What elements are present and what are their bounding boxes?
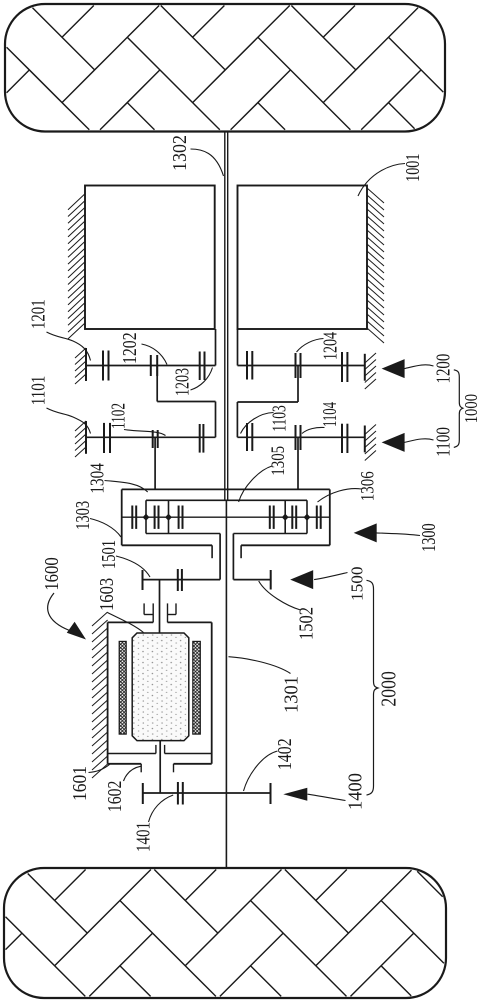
brake element row2-right — [341, 424, 343, 453]
gear P2 left cluster — [154, 506, 156, 529]
gearbox center axis line — [122, 516, 330, 518]
svg-text:2000: 2000 — [377, 671, 401, 706]
motor housing top edge — [108, 621, 154, 623]
wall support 1201 — [85, 348, 87, 381]
wire carrier-right down to 1502 — [232, 534, 234, 580]
carrier frame 1304/1305 (inner box) — [146, 499, 307, 501]
brace 1000 group — [454, 370, 463, 448]
clutch 1104 — [295, 425, 297, 450]
leader 1203 — [191, 368, 213, 391]
gear P3 left cluster — [178, 506, 180, 529]
wire motor output shaft — [159, 741, 161, 793]
fixed-wall hatching 1601 (left of motor) — [92, 612, 108, 626]
wire 1104 down to gearbox — [297, 437, 299, 489]
shaft 1301 (lower main shaft) — [225, 500, 227, 868]
arrow indicator 1300 — [354, 523, 377, 542]
fixed-wall hatching right of box 1001 — [367, 188, 384, 203]
leader 1204 — [297, 339, 324, 353]
leader 1301 — [229, 657, 291, 674]
motor inner bottom lips — [155, 745, 157, 754]
leader 1501 — [116, 556, 150, 577]
wire motor input shaft — [159, 580, 161, 633]
svg-text:1200: 1200 — [432, 354, 454, 384]
junction node A2 — [165, 514, 172, 521]
svg-text:1305: 1305 — [268, 446, 289, 476]
junction node A4 — [304, 514, 311, 521]
fixed-wall hatching left of box M1 — [68, 194, 85, 210]
svg-text:1303: 1303 — [72, 501, 94, 530]
gear G22 on row2-left — [199, 424, 201, 453]
rotor 1603 — [132, 633, 189, 741]
gearbox housing 1303 (outer box) — [122, 488, 330, 490]
svg-text:1400: 1400 — [346, 773, 367, 810]
motor inner bottom edge — [108, 753, 156, 755]
wire row2-right shaft line — [237, 436, 364, 438]
wheel W2 (bottom tire) — [4, 868, 446, 998]
gear P4 right cluster — [269, 506, 271, 529]
svg-text:1203: 1203 — [173, 368, 194, 396]
leader 1102 — [124, 430, 166, 436]
wire 1501 row line — [143, 579, 221, 581]
wire row1-right shaft line — [238, 365, 365, 367]
svg-text:1100: 1100 — [432, 427, 454, 457]
svg-text:1000: 1000 — [461, 394, 481, 424]
svg-text:1602: 1602 — [104, 781, 126, 812]
gear P5 right cluster — [291, 506, 293, 529]
svg-text:1402: 1402 — [274, 738, 296, 770]
wire 1502 row line — [233, 579, 270, 581]
tread pattern of wheel W2 — [6, 870, 444, 997]
gear P1 left cluster — [131, 506, 133, 529]
svg-text:1201: 1201 — [29, 299, 50, 329]
leader 1401 — [149, 795, 174, 822]
leader 1104 — [302, 427, 325, 433]
svg-text:1302: 1302 — [170, 135, 191, 171]
arrow indicator 1200 — [382, 359, 405, 378]
svg-text:1104: 1104 — [320, 402, 341, 427]
wire row2-left shaft line — [86, 436, 216, 438]
wire step 1204 to row2-right — [297, 366, 299, 403]
stator 1602 left block — [119, 641, 126, 734]
junction node A3 — [282, 514, 289, 521]
gearbox bottom lips — [211, 545, 213, 558]
shaft end T 1502-right — [270, 570, 272, 590]
svg-text:1500: 1500 — [347, 567, 366, 602]
leader 1201 — [47, 332, 91, 361]
motor outer bottom edge — [108, 763, 142, 765]
svg-text:1601: 1601 — [69, 766, 91, 801]
svg-text:1306: 1306 — [358, 471, 379, 501]
leader 1402 — [244, 751, 278, 791]
leader 1305 — [239, 466, 272, 502]
leader 1603 — [108, 613, 144, 633]
wire step 1202 to row2-left — [156, 366, 158, 402]
wire 1402 row line — [143, 792, 271, 794]
svg-text:1501: 1501 — [98, 540, 120, 569]
leader 1304 — [105, 481, 148, 493]
leader 1202 — [142, 344, 168, 365]
wire from box 1001 down to row1-right — [237, 329, 239, 366]
leader 1306 — [318, 489, 362, 502]
leader 1101 — [47, 408, 91, 434]
svg-text:1202: 1202 — [120, 332, 141, 364]
shaft end T 1501-left — [142, 570, 144, 590]
coupling 1402 — [177, 782, 179, 805]
wheel W1 (top tire) — [5, 4, 445, 132]
leader 1601 — [89, 764, 110, 772]
brace 2000 group — [367, 580, 378, 795]
box M1 (left unit) — [85, 186, 215, 330]
stator 1602 right block — [193, 641, 201, 734]
tread pattern of wheel W1 — [7, 6, 444, 130]
clutch 1102 — [152, 430, 154, 448]
wire from box M1 down to row1-left — [215, 329, 217, 366]
brake element row1-right — [341, 352, 343, 382]
svg-text:1103: 1103 — [270, 405, 291, 432]
wire row1-left shaft line — [86, 365, 216, 367]
motor outer bottom lips — [140, 764, 142, 773]
arrow indicator 1100 — [382, 433, 405, 452]
leader 1001 — [358, 164, 405, 197]
shaft end T 1402-left — [142, 783, 144, 804]
wall support 1101 — [85, 421, 87, 454]
svg-text:1101: 1101 — [29, 376, 50, 406]
coupling 1501 — [177, 569, 179, 591]
junction node A1 — [143, 514, 150, 521]
svg-text:1204: 1204 — [321, 332, 342, 360]
arrow indicator 1600 — [67, 622, 86, 640]
gear G12 on row1-right — [246, 351, 248, 380]
svg-text:1401: 1401 — [134, 822, 155, 852]
arrow indicator 1500 — [290, 570, 313, 589]
gear 1203 — [199, 352, 201, 381]
svg-text:1502: 1502 — [297, 607, 318, 640]
svg-text:1301: 1301 — [282, 676, 303, 713]
svg-text:1102: 1102 — [109, 403, 130, 429]
gear G11 on row1-left — [102, 351, 104, 381]
motor housing 1601 side walls — [107, 622, 109, 763]
leader 1302 — [191, 149, 224, 176]
box 1001 (right unit) — [238, 186, 368, 330]
carrier partitions — [168, 500, 170, 533]
leader 1103 — [241, 413, 274, 434]
wire carrier-left down to 1501 — [219, 534, 221, 580]
wall support row1-right (brake 1200) — [364, 354, 366, 381]
gear 1306 right cluster — [316, 506, 318, 529]
svg-text:1300: 1300 — [419, 523, 440, 552]
shaft end T 1402-right — [270, 783, 272, 804]
leader 1303 — [90, 519, 121, 538]
svg-text:1603: 1603 — [97, 578, 118, 611]
leader 1502 — [259, 581, 301, 610]
wire 1102 down to gearbox — [154, 437, 156, 489]
clutch 1204 — [295, 353, 297, 378]
shaft 1302 (upper half-shaft, double line) — [224, 132, 226, 501]
svg-text:1304: 1304 — [87, 463, 109, 493]
clutch 1202 — [150, 355, 152, 376]
gear 1103 — [246, 423, 248, 451]
svg-text:1600: 1600 — [41, 557, 63, 590]
motor top shaft brackets — [143, 603, 145, 614]
leader 1602 — [124, 766, 142, 781]
arrow indicator 1400 — [283, 788, 307, 801]
gear G21 on row2-left — [103, 423, 105, 453]
svg-text:1001: 1001 — [402, 153, 424, 181]
wall support row2-right (brake 1100) — [364, 426, 366, 453]
